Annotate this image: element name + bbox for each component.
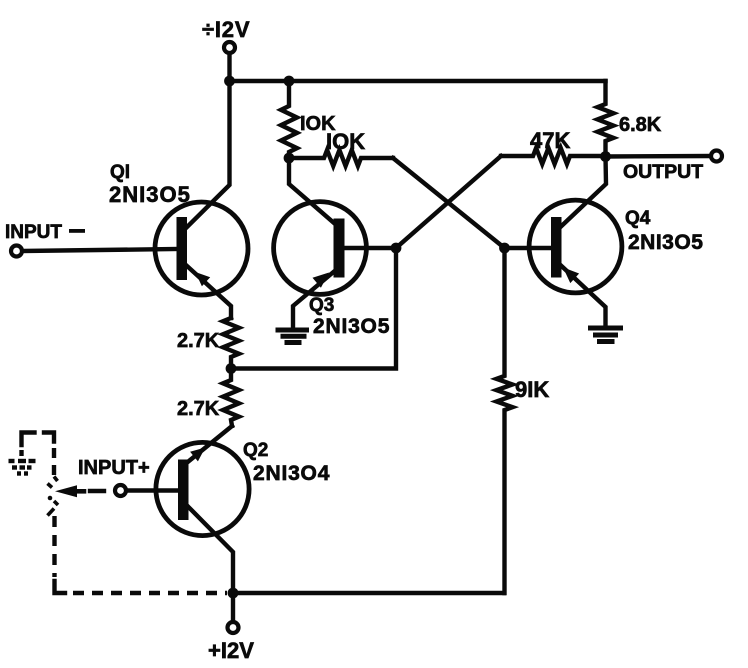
wire Q2 collector lead (189, 507, 234, 593)
svg-text:2.7K: 2.7K (177, 330, 220, 352)
node 10K / 10K / Q3 collector (284, 153, 295, 164)
wire dashed staple left leg dash (19, 450, 23, 456)
svg-text:6.8K: 6.8K (619, 114, 662, 136)
terminal OUTPUT (711, 151, 722, 162)
svg-text:Q2: Q2 (243, 440, 268, 461)
wire junction to Q3 base node (231, 248, 396, 369)
svg-text:2.7K: 2.7K (177, 398, 220, 420)
wire +12V terminal lead (231, 593, 235, 622)
transistor Q4 (circle and base bar) (529, 200, 622, 293)
svg-text:2NI3O4: 2NI3O4 (253, 462, 330, 485)
resistor 47K (501, 148, 606, 164)
svg-text:÷I2V: ÷I2V (202, 17, 250, 42)
svg-text:47K: 47K (530, 128, 570, 153)
svg-text:2NI3O5: 2NI3O5 (628, 231, 703, 254)
resistor 2.7K lower (223, 369, 239, 427)
wire Q2 base lead (127, 488, 179, 492)
svg-text:2NI3O5: 2NI3O5 (313, 315, 390, 338)
resistor 6.8K (598, 81, 614, 156)
switch wiper arrow (55, 485, 77, 497)
node junction of 2.7K resistors (226, 363, 237, 374)
node Q4 base / 91K resistor (499, 243, 510, 254)
wire Q1 collector lead (187, 81, 230, 227)
node bottom rail / +12V (228, 588, 239, 599)
resistor 10K horizontal (289, 150, 393, 166)
transistor Q3 (circle and base bar, mirrored) (274, 202, 367, 295)
wire Q1 emitter lead (187, 266, 231, 318)
wire Q4 base lead (505, 246, 552, 250)
wire cross-coupling 10K to Q4 base (393, 158, 505, 248)
svg-text:2NI3O5: 2NI3O5 (109, 182, 191, 207)
wire dashed staple top left corner (22, 433, 35, 446)
Q1 emitter arrow (PNP, pointing to base) (195, 272, 210, 286)
node output / Q4 collector (600, 151, 611, 162)
node top rail / Q1 collector (224, 76, 235, 87)
wire cross-coupling 47K to Q3 base (396, 156, 501, 248)
ground Q4 emitter (591, 328, 621, 342)
wire Q4 emitter lead (562, 266, 606, 326)
svg-text:Q3: Q3 (309, 295, 334, 316)
wire Q3 collector lead (289, 158, 334, 223)
Q2 emitter arrow (NPN, pointing out) (190, 448, 205, 462)
wire dashed bottom (ground return) (55, 581, 66, 593)
svg-text:Q4: Q4 (625, 208, 651, 229)
Q3 emitter arrow (PNP, pointing to base) (313, 273, 330, 288)
wire dashed staple top right corner (44, 433, 54, 442)
terminal +12V supply (228, 622, 239, 633)
wire dashed vertical upper (52, 448, 56, 476)
svg-text:QI: QI (110, 162, 130, 183)
terminal INPUT- (11, 246, 22, 257)
wire -12V terminal to top rail (227, 54, 231, 81)
wire Q3 emitter lead (293, 272, 334, 329)
svg-text:9IK: 9IK (515, 377, 549, 402)
terminal -12V supply (224, 42, 235, 53)
switch wiper contact dots (48, 477, 59, 516)
resistor 2.7K upper (223, 318, 239, 369)
wire dashed vertical lower (52, 516, 56, 577)
wire Q1 base lead (23, 249, 177, 251)
wire Q2 emitter lead (187, 426, 233, 463)
wire Q3 base lead (345, 246, 397, 250)
wire bottom supply rail (233, 591, 504, 595)
svg-text:+I2V: +I2V (208, 638, 254, 663)
svg-text:IOK: IOK (326, 129, 365, 154)
Q4 emitter arrow (PNP, pointing to base) (563, 267, 579, 283)
node Q3 base (391, 243, 402, 254)
wire to OUTPUT terminal (606, 154, 711, 159)
terminal INPUT+ (115, 485, 126, 496)
wire dashed INPUT+ to wiper (90, 489, 104, 493)
resistor 91K (with wires to Q4 base node and bottom rail) (497, 248, 513, 593)
ground chassis (dashed, left) (9, 461, 36, 474)
transistor Q2 (circle and base bar) (156, 442, 249, 535)
ground Q3 emitter (278, 330, 307, 343)
resistor 10K vertical (281, 81, 297, 158)
svg-text:OUTPUT: OUTPUT (623, 161, 703, 183)
node top rail / 10K resistor (284, 76, 295, 87)
svg-text:INPUT: INPUT (5, 222, 62, 243)
wire Q4 collector lead (562, 157, 607, 227)
transistor Q1 (circle and base bar) (155, 202, 248, 295)
svg-text:INPUT+: INPUT+ (78, 457, 150, 479)
wire top supply rail (230, 79, 606, 83)
